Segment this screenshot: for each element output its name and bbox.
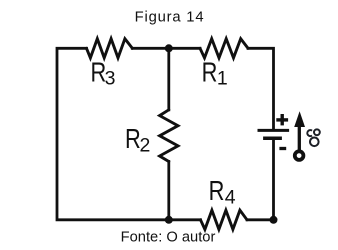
emf direction arrow tail circle: [295, 151, 304, 160]
svg-text:R: R: [125, 123, 141, 154]
node: junction dot bottom (middle branch / bottom wire): [165, 216, 173, 224]
svg-text:Fonte: O autor: Fonte: O autor: [121, 229, 216, 245]
battery: short negative plate: [263, 136, 282, 140]
resistor R4: [201, 210, 248, 229]
svg-text:R: R: [202, 57, 218, 88]
emf direction arrow shaft: [298, 124, 301, 151]
node: junction dot top (middle branch / top wire): [165, 44, 173, 52]
svg-text:R: R: [209, 175, 225, 206]
svg-text:4: 4: [225, 186, 236, 208]
svg-text:Figura 14: Figura 14: [135, 10, 205, 26]
wire: middle branch upper segment: [167, 48, 170, 110]
wire: right side below battery down to bottom-right corner and to R4: [247, 140, 274, 220]
battery polarity label +: [276, 114, 288, 125]
node: junction dot bottom-right corner: [270, 216, 278, 224]
svg-text:1: 1: [217, 68, 228, 90]
wire: top-right stub and right side down to battery top plate: [248, 48, 274, 129]
resistor R3: [87, 39, 133, 58]
emf symbol (script epsilon): [307, 129, 319, 146]
resistor R1: [200, 39, 248, 58]
wire: top-left stub, left side, bottom-left run: [57, 48, 201, 220]
battery: long positive plate: [258, 129, 290, 132]
svg-text:3: 3: [105, 67, 116, 89]
wire: top middle segment between R3 and R1: [132, 47, 200, 50]
svg-text:2: 2: [140, 135, 151, 157]
resistor R2: [160, 110, 178, 162]
wire: middle branch lower segment: [167, 162, 170, 220]
battery polarity label -: [279, 147, 286, 150]
emf direction arrow head: [294, 111, 305, 127]
